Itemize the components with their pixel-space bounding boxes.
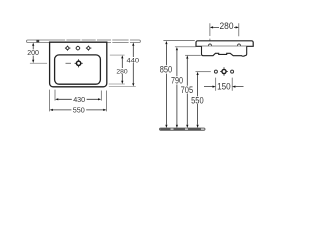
svg-text:280: 280 bbox=[116, 68, 127, 75]
svg-text:280: 280 bbox=[220, 21, 234, 31]
dimension 550 (height) bbox=[191, 72, 204, 128]
svg-text:705: 705 bbox=[181, 85, 194, 95]
extension lines for 550 dim bbox=[50, 90, 107, 112]
extension line basin bottom right bbox=[109, 86, 136, 88]
dimension 850 (height) bbox=[160, 41, 172, 128]
dimension 440 (plan far right) bbox=[127, 43, 140, 87]
fixing hole left (front view) bbox=[209, 44, 212, 47]
dimension 790 (height) bbox=[171, 47, 183, 128]
svg-text:850: 850 bbox=[160, 65, 172, 75]
extension line rim bottom to 790 bbox=[175, 46, 196, 48]
extension line body bottom to 705 bbox=[185, 54, 201, 56]
extension line rim top to 850 bbox=[163, 40, 194, 42]
extension line fittings to 550 bbox=[196, 71, 211, 73]
dimension 200 (plan left) bbox=[27, 43, 39, 63]
svg-text:440: 440 bbox=[127, 57, 140, 64]
washbasin outer rim (plan view) bbox=[50, 42, 107, 87]
extension lines for 280 dim (front top) bbox=[210, 23, 239, 40]
rim band (front view) bbox=[196, 41, 253, 47]
dimension 430 (plan bottom) bbox=[55, 95, 101, 104]
extension line bowl bottom bbox=[109, 83, 125, 85]
svg-text:550: 550 bbox=[73, 106, 85, 115]
dimension 705 (height) bbox=[181, 55, 194, 128]
svg-text:150: 150 bbox=[217, 82, 231, 92]
tap hole left (diamond) bbox=[65, 46, 71, 51]
dimension 280 (plan right) bbox=[116, 55, 127, 84]
wall line (plan view, top) bbox=[27, 39, 141, 43]
floor line (front view bottom) bbox=[160, 128, 206, 130]
extension line faucet centre to 280 dim bbox=[110, 54, 125, 56]
svg-text:430: 430 bbox=[73, 95, 85, 104]
fixing hole right (front view) bbox=[238, 44, 241, 47]
dimension 150 (fittings spacing) bbox=[204, 82, 244, 92]
dimension 550 (plan bottom) bbox=[50, 106, 107, 115]
inner bowl (plan view) bbox=[55, 55, 101, 84]
basin body profile (front view) bbox=[202, 46, 247, 56]
centre line through faucet (plan view) bbox=[30, 62, 47, 64]
extension lines for 430 dim bbox=[55, 90, 101, 101]
supply fitting right (small circle) bbox=[231, 70, 234, 73]
tap hole right (diamond) bbox=[86, 46, 92, 51]
drain fitting centre (target symbol) bbox=[220, 67, 228, 75]
dimension 280 (front top) bbox=[210, 21, 239, 31]
centre line dash near bowl bbox=[66, 62, 72, 64]
supply fitting left (small circle) bbox=[214, 70, 217, 73]
svg-text:550: 550 bbox=[191, 95, 204, 105]
extension lines for 150 dim bbox=[216, 78, 233, 91]
faucet drain target symbol (plan view) bbox=[75, 59, 83, 67]
tap hole centre (circle) bbox=[75, 46, 80, 51]
svg-text:200: 200 bbox=[27, 48, 39, 57]
